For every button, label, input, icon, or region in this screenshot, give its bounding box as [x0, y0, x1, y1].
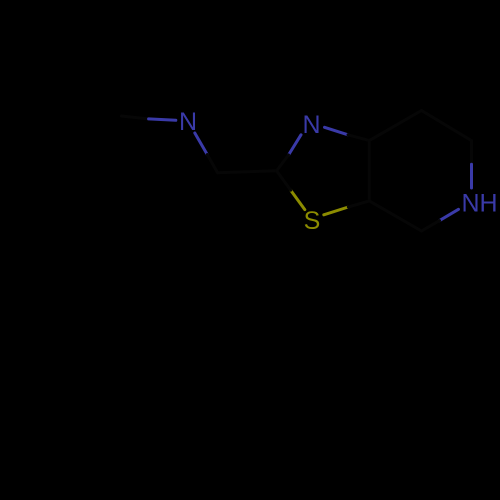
- svg-text:S: S: [304, 207, 321, 235]
- svg-text:N: N: [179, 108, 197, 136]
- svg-text:NH: NH: [461, 190, 497, 218]
- svg-text:N: N: [302, 111, 320, 139]
